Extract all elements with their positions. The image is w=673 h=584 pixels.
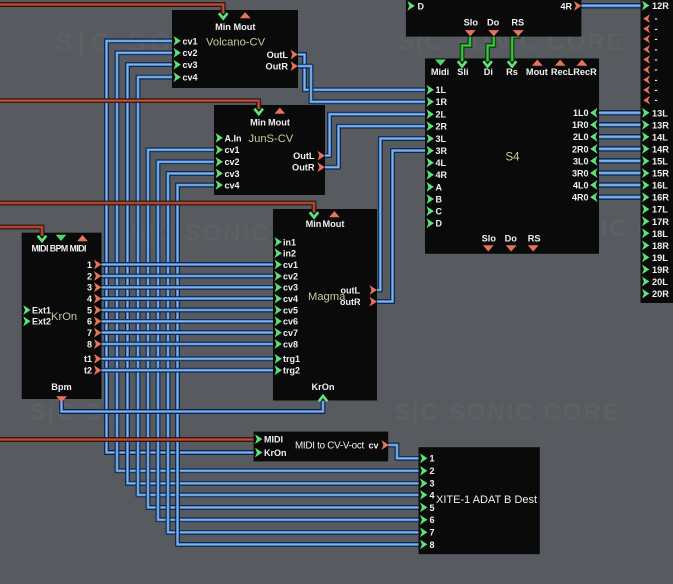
svg-text:t2: t2 — [84, 366, 92, 376]
wire S4 2R0 to 14R — [598, 146, 646, 151]
wire net6 JunS cv2 / XITE 6 — [158, 162, 424, 520]
wire S4 1L0 to 13L — [598, 110, 646, 115]
svg-text:20L: 20L — [652, 277, 668, 287]
Volcano-CV cv input labels — [183, 36, 198, 82]
svg-text:Do: Do — [487, 18, 500, 28]
wire KrOn 6 to Magma cv6 — [102, 319, 279, 324]
top-right 4R label — [560, 1, 572, 11]
svg-text:8: 8 — [87, 339, 92, 349]
svg-text:A.In: A.In — [225, 133, 242, 143]
right column 12R input port — [642, 1, 649, 11]
S4 left input ports — [427, 85, 434, 228]
module right column dest (partial) — [641, 0, 673, 303]
KrOn Ext1 Ext2 labels — [32, 305, 51, 326]
svg-text:cv1: cv1 — [283, 260, 298, 270]
svg-text:1: 1 — [87, 260, 92, 270]
svg-text:3: 3 — [430, 479, 435, 489]
module XITE-1 ADAT B Dest — [419, 447, 540, 554]
wire Slo to S4 Sli — [462, 33, 470, 61]
svg-text:MIDI to CV-V-oct: MIDI to CV-V-oct — [295, 441, 364, 452]
svg-text:outR: outR — [340, 297, 361, 307]
Volcano-CV OutL OutR output ports — [291, 50, 298, 71]
right column 13L-20R input ports — [642, 108, 649, 299]
svg-text:4R0: 4R0 — [572, 193, 589, 203]
svg-text:cv1: cv1 — [225, 145, 240, 155]
svg-text:Bpm: Bpm — [51, 382, 71, 392]
svg-text:S|C SONIC CORE: S|C SONIC CORE — [394, 399, 621, 426]
wire JunS OutL to S4 2L — [323, 114, 430, 155]
module S4 — [425, 58, 599, 253]
JunS-CV cv input labels — [225, 145, 240, 190]
svg-text:6: 6 — [430, 515, 435, 525]
wire net1 Volcano cv1 / MIDI-to-CV KrOn — [107, 41, 260, 453]
svg-text:2R: 2R — [436, 122, 448, 132]
svg-text:OutL: OutL — [267, 50, 289, 60]
svg-text:in1: in1 — [283, 237, 296, 247]
svg-text:Di: Di — [484, 67, 493, 77]
XITE-1 title — [436, 494, 537, 506]
svg-text:4R: 4R — [560, 1, 572, 11]
wire KrOn t1 to Magma trg1 — [102, 356, 279, 361]
svg-text:MIDI BPM MIDI: MIDI BPM MIDI — [32, 244, 87, 254]
svg-text:18L: 18L — [652, 229, 668, 239]
wire red to Magma Min — [0, 203, 314, 211]
S4 right output ports — [590, 108, 597, 202]
svg-text:4: 4 — [87, 294, 92, 304]
wire KrOn 4 to Magma cv4 — [102, 296, 279, 301]
svg-text:RecL: RecL — [551, 67, 574, 77]
svg-text:16R: 16R — [652, 193, 669, 203]
svg-text:5: 5 — [430, 503, 435, 513]
svg-text:Slo: Slo — [464, 18, 479, 28]
KrOn output ports 1-8 t1 t2 — [94, 260, 101, 376]
svg-text:3R0: 3R0 — [572, 168, 589, 178]
Volcano-CV OutL OutR labels — [266, 50, 289, 72]
wire MIDI-to-CV cv to XITE 1 — [387, 445, 424, 458]
svg-text:cv2: cv2 — [283, 271, 298, 281]
Magma Min input arrow — [310, 205, 319, 218]
wire KrOn Bpm to Magma KrOn — [62, 398, 324, 412]
svg-text:2: 2 — [430, 466, 435, 476]
svg-text:-: - — [655, 75, 658, 85]
right column 12R label — [652, 1, 669, 11]
svg-text:t1: t1 — [84, 354, 92, 364]
MIDI-to-CV MIDI KrOn labels — [264, 435, 287, 458]
svg-text:17L: 17L — [652, 205, 668, 215]
top-right 4R output port — [574, 1, 581, 11]
svg-text:cv2: cv2 — [225, 157, 240, 167]
svg-text:15R: 15R — [652, 169, 669, 179]
svg-text:S4: S4 — [506, 152, 521, 164]
svg-text:5: 5 — [87, 305, 92, 315]
XITE-1 input labels — [430, 454, 435, 550]
svg-text:14R: 14R — [652, 144, 669, 154]
svg-text:cv4: cv4 — [283, 294, 298, 304]
svg-text:cv5: cv5 — [283, 305, 298, 315]
MIDI-to-CV MIDI KrOn input ports — [255, 434, 262, 457]
svg-text:-: - — [655, 34, 658, 44]
svg-text:KrOn: KrOn — [312, 382, 335, 392]
wire net3 Volcano cv3 / XITE 3 — [128, 65, 425, 484]
svg-text:-: - — [655, 14, 658, 24]
wire S4 4R0 to 16R — [598, 194, 646, 199]
wire S4 3L0 to 15L — [598, 158, 646, 163]
svg-text:OutR: OutR — [292, 163, 315, 173]
svg-text:OutR: OutR — [266, 62, 289, 72]
svg-text:Volcano-CV: Volcano-CV — [206, 37, 266, 49]
top-right D label — [418, 1, 425, 11]
svg-text:trg2: trg2 — [283, 366, 300, 376]
svg-text:cv4: cv4 — [183, 73, 198, 83]
svg-text:cv3: cv3 — [225, 169, 240, 179]
svg-text:XITE-1 ADAT B Dest: XITE-1 ADAT B Dest — [436, 494, 537, 506]
svg-text:-: - — [655, 95, 658, 105]
S4 bottom Slo Do RS output triangles — [483, 245, 539, 251]
wire KrOn 3 to Magma cv3 — [102, 285, 279, 290]
wire Magma outL to S4 3L — [375, 139, 430, 290]
JunS-CV top labels — [250, 117, 290, 127]
svg-text:KrOn: KrOn — [51, 311, 77, 323]
module MIDI to CV-V-oct — [254, 432, 389, 462]
KrOn Bpm label — [51, 382, 71, 392]
JunS-CV cv input ports — [216, 145, 223, 190]
svg-text:-: - — [655, 24, 658, 34]
wire S4 1R0 to 13R — [598, 122, 646, 127]
svg-text:-: - — [655, 65, 658, 75]
JunS-CV Min input arrow — [254, 102, 263, 114]
S4 Sli Di Rs input arrows — [458, 56, 517, 67]
Magma title — [308, 291, 346, 303]
svg-text:-: - — [655, 55, 658, 65]
wire Magma outR to S4 3R — [375, 151, 430, 302]
MIDI-to-CV cv label — [369, 440, 379, 450]
KrOn Ext1 Ext2 input ports — [23, 305, 30, 326]
Volcano-CV Mout output triangle — [240, 12, 251, 18]
wire KrOn 5 to Magma cv5 — [102, 308, 279, 313]
svg-text:19R: 19R — [652, 265, 669, 275]
wire Do to S4 Di — [488, 33, 494, 61]
svg-text:cv6: cv6 — [283, 317, 298, 327]
wire S4 2L0 to 14L — [598, 134, 646, 139]
MIDI-to-CV title — [295, 441, 364, 452]
svg-text:A: A — [436, 182, 443, 192]
wire RS to S4 Rs — [512, 31, 518, 61]
svg-text:Ext1: Ext1 — [32, 305, 51, 315]
module Volcano-CV — [172, 10, 298, 88]
JunS-CV OutL OutR labels — [292, 151, 315, 173]
svg-text:3R: 3R — [436, 146, 448, 156]
svg-text:C: C — [436, 207, 443, 217]
svg-text:3: 3 — [87, 283, 92, 293]
JunS-CV OutL OutR output ports — [318, 151, 325, 172]
svg-text:Ext2: Ext2 — [32, 317, 51, 327]
svg-text:13L: 13L — [652, 108, 668, 118]
svg-text:1: 1 — [430, 454, 435, 464]
svg-text:2: 2 — [87, 271, 92, 281]
svg-text:12R: 12R — [652, 1, 669, 11]
svg-text:Midi: Midi — [431, 67, 449, 77]
Magma input ports — [275, 237, 282, 375]
svg-text:17R: 17R — [652, 217, 669, 227]
svg-text:cv7: cv7 — [283, 328, 298, 338]
Magma KrOn label — [312, 382, 335, 392]
top-right Slo Do RS labels — [464, 18, 524, 28]
svg-text:4L: 4L — [436, 158, 447, 168]
wire net8 JunS cv4 / XITE 8 — [178, 185, 425, 544]
wire S4 4L0 to 16L — [598, 182, 646, 187]
svg-text:KrOn: KrOn — [264, 448, 287, 458]
svg-text:Mout: Mout — [323, 219, 345, 229]
module KrOn — [22, 233, 102, 399]
S4 Midi input triangle — [435, 60, 446, 66]
svg-text:-: - — [655, 44, 658, 54]
wire KrOn 7 to Magma cv7 — [102, 330, 279, 335]
svg-text:Min: Min — [215, 22, 231, 32]
KrOn top labels — [32, 244, 87, 254]
svg-text:trg1: trg1 — [283, 354, 300, 364]
top-right Slo Do RS output triangles — [465, 30, 524, 36]
Magma KrOn bottom input arrow — [319, 396, 328, 405]
svg-text:4L0: 4L0 — [573, 180, 589, 190]
svg-text:19L: 19L — [652, 253, 668, 263]
svg-text:1L: 1L — [436, 85, 447, 95]
JunS-CV A.In input port — [216, 133, 223, 143]
svg-text:13R: 13R — [652, 120, 669, 130]
KrOn MIDI input arrow — [38, 229, 47, 242]
svg-text:OutL: OutL — [293, 151, 315, 161]
svg-text:-: - — [655, 85, 658, 95]
wire red to Volcano Min — [0, 5, 223, 12]
JunS-CV Mout output triangle — [274, 108, 285, 114]
svg-text:Sli: Sli — [457, 67, 468, 77]
svg-text:in2: in2 — [283, 249, 296, 259]
svg-text:cv2: cv2 — [183, 48, 198, 58]
svg-text:Min: Min — [250, 117, 266, 127]
Magma outL outR output ports — [370, 285, 377, 306]
svg-text:RS: RS — [511, 18, 524, 28]
svg-text:cv3: cv3 — [183, 60, 198, 70]
svg-text:1L0: 1L0 — [573, 108, 589, 118]
module JunS-CV — [214, 105, 325, 195]
svg-text:cv8: cv8 — [283, 339, 298, 349]
Volcano-CV title — [206, 37, 266, 49]
svg-text:Mout: Mout — [234, 22, 256, 32]
wire KrOn t2 to Magma trg2 — [102, 368, 279, 373]
svg-text:8: 8 — [430, 540, 435, 550]
svg-text:Mout: Mout — [526, 67, 548, 77]
wire red to KrOn MIDI in — [0, 227, 42, 234]
KrOn BPM input triangle — [56, 235, 67, 241]
JunS-CV A.In label — [225, 133, 242, 143]
svg-text:cv1: cv1 — [183, 36, 198, 46]
svg-text:15L: 15L — [652, 157, 668, 167]
Magma top labels — [306, 219, 345, 229]
svg-text:cv: cv — [369, 440, 379, 450]
wire net7 JunS cv3 / XITE 7 — [168, 173, 424, 532]
top-right D input port — [407, 1, 414, 11]
module Magma — [273, 209, 377, 401]
svg-text:Do: Do — [505, 234, 518, 244]
svg-text:Mout: Mout — [268, 117, 290, 127]
S4 left input labels — [436, 85, 448, 228]
right column unconnected output ports — [643, 14, 650, 104]
svg-text:4: 4 — [430, 490, 435, 500]
right column dash labels — [655, 14, 658, 106]
svg-text:Min: Min — [306, 219, 322, 229]
Magma outL outR labels — [340, 286, 361, 308]
svg-text:3L0: 3L0 — [573, 156, 589, 166]
XITE-1 input ports 1-8 — [420, 453, 427, 549]
svg-text:2L0: 2L0 — [573, 132, 589, 142]
wire S4 3R0 to 15R — [598, 170, 646, 175]
svg-text:7: 7 — [87, 328, 92, 338]
svg-text:D: D — [436, 219, 443, 229]
svg-text:D: D — [418, 1, 425, 11]
Volcano-CV Min input arrow — [219, 6, 228, 19]
svg-text:18R: 18R — [652, 241, 669, 251]
wire KrOn 1 to Magma cv1 — [102, 262, 279, 267]
wire 4R to 12R — [581, 3, 646, 8]
wire Volcano OutR to S4 1R — [296, 66, 430, 102]
svg-text:Rs: Rs — [506, 67, 518, 77]
svg-text:2L: 2L — [436, 110, 447, 120]
right column 13L-20R labels — [652, 108, 669, 299]
svg-text:cv3: cv3 — [283, 283, 298, 293]
S4 Mout RecL RecR output triangles — [532, 60, 588, 66]
svg-text:B: B — [436, 194, 443, 204]
wire KrOn 8 to Magma cv8 — [102, 342, 279, 347]
KrOn title — [51, 311, 77, 323]
wire red to JunS Min — [0, 101, 259, 107]
S4 top labels — [431, 67, 597, 77]
svg-text:4R: 4R — [436, 170, 448, 180]
svg-text:3L: 3L — [436, 134, 447, 144]
wire JunS OutR to S4 2R — [323, 126, 430, 167]
MIDI-to-CV cv output port — [382, 440, 389, 450]
svg-text:cv4: cv4 — [225, 180, 240, 190]
wire red to MIDI-to-CV MIDI in — [0, 437, 259, 442]
svg-text:2R0: 2R0 — [572, 144, 589, 154]
Volcano-CV top labels — [215, 22, 255, 32]
wire KrOn 2 to Magma cv2 — [102, 274, 279, 279]
Volcano-CV cv input ports — [174, 36, 181, 82]
Magma Mout output triangle — [329, 211, 340, 217]
svg-text:6: 6 — [87, 317, 92, 327]
svg-text:7: 7 — [430, 528, 435, 538]
module top-right source (partial) — [406, 0, 582, 37]
wire Volcano OutL to S4 1L — [296, 55, 430, 90]
svg-text:Slo: Slo — [482, 234, 497, 244]
wire net4 Volcano cv4 / XITE 4 — [138, 77, 424, 495]
svg-text:MIDI: MIDI — [264, 435, 283, 445]
S4 bottom labels — [482, 234, 541, 244]
KrOn output labels — [84, 260, 92, 376]
svg-text:1R: 1R — [436, 97, 448, 107]
svg-text:outL: outL — [341, 286, 361, 296]
KrOn Bpm output triangle — [56, 396, 67, 402]
S4 title — [506, 152, 521, 164]
JunS-CV title — [249, 133, 294, 145]
svg-text:16L: 16L — [652, 181, 668, 191]
svg-text:20R: 20R — [652, 289, 669, 299]
svg-text:RS: RS — [528, 234, 541, 244]
svg-text:14L: 14L — [652, 132, 668, 142]
S4 right output labels — [572, 108, 589, 202]
svg-text:JunS-CV: JunS-CV — [249, 133, 294, 145]
svg-text:1R0: 1R0 — [572, 120, 589, 130]
svg-text:RecR: RecR — [573, 67, 597, 77]
wire net5 JunS cv1 / XITE 5 — [148, 150, 424, 508]
Magma input labels — [283, 237, 300, 375]
wire net2 Volcano cv2 / XITE 2 — [117, 53, 424, 471]
KrOn MIDI output triangle — [77, 235, 88, 241]
watermark background logos — [30, 27, 673, 426]
